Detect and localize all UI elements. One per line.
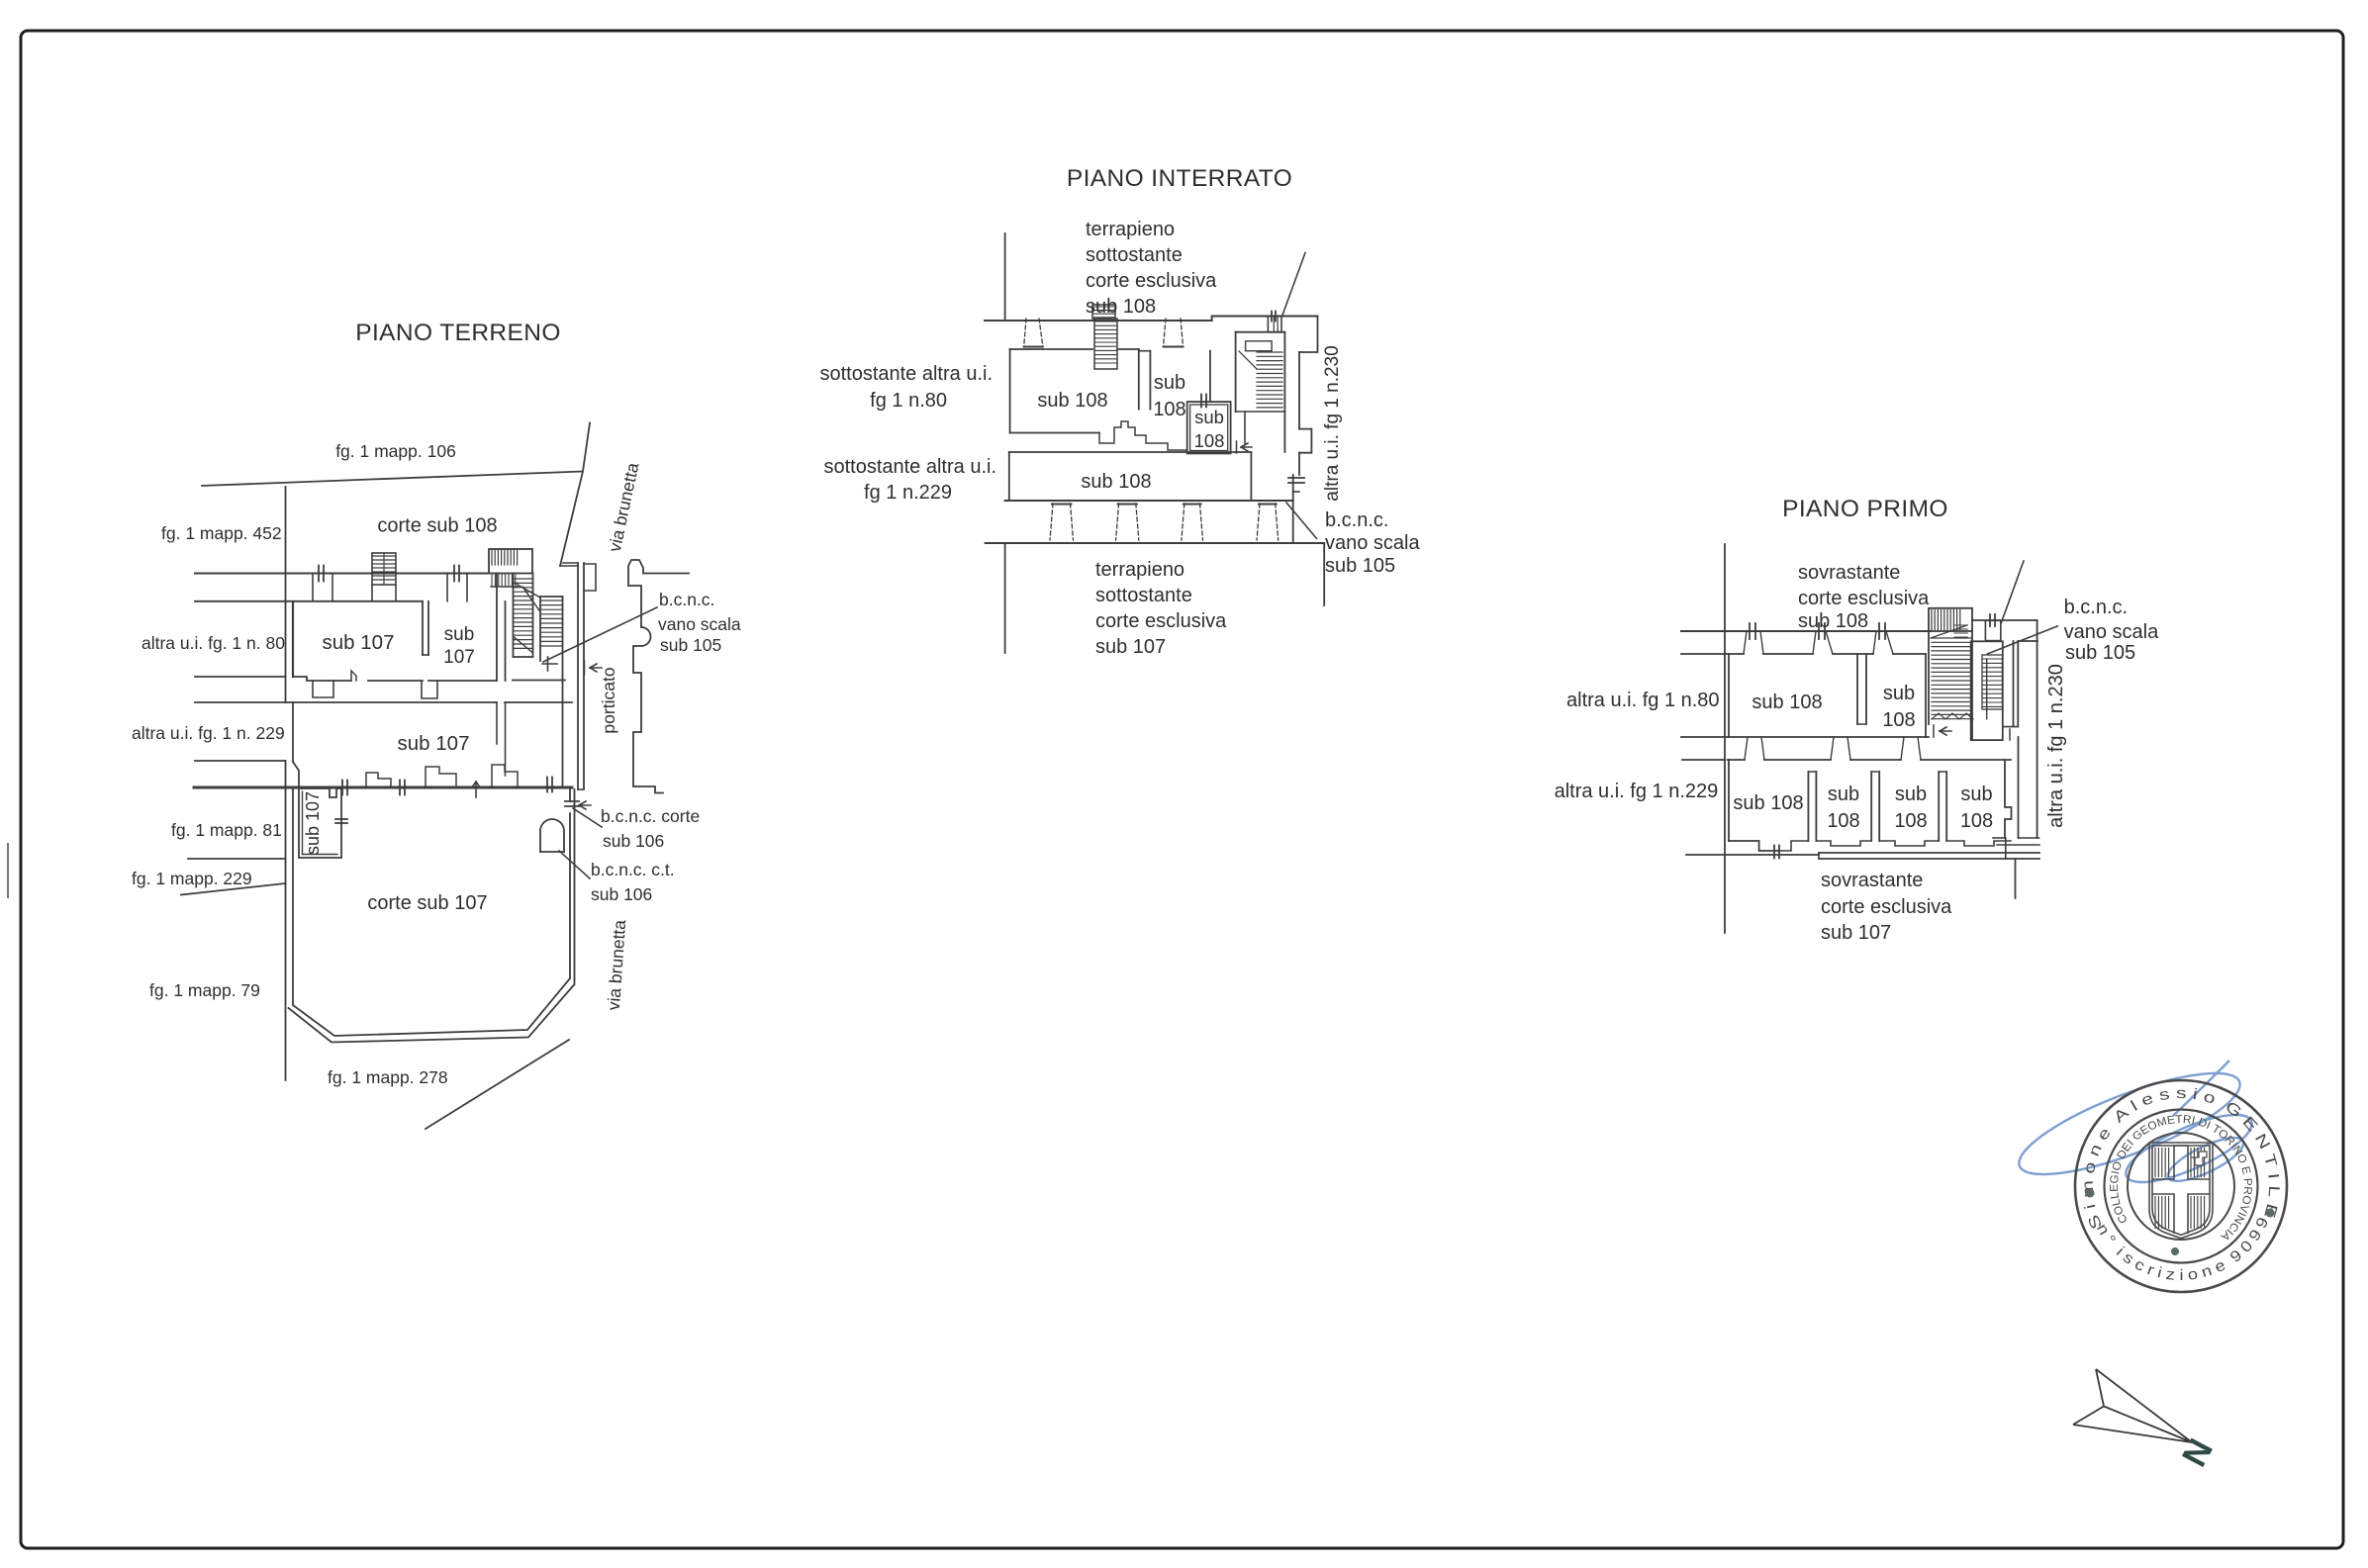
building SE wall continuation xyxy=(562,681,564,788)
door arrow plan2 corridor xyxy=(1241,443,1252,451)
svg-text:vano scala: vano scala xyxy=(658,614,741,634)
window tick xyxy=(1272,312,1276,322)
right lower stub plan3 xyxy=(2015,859,2017,898)
svg-text:terrapieno: terrapieno xyxy=(1095,559,1184,581)
tick south facade 2 xyxy=(400,781,405,795)
svg-text:sub: sub xyxy=(1828,784,1859,805)
window bay dashed plan2 top xyxy=(1024,319,1026,346)
stamp: signature blue swirls xyxy=(2009,1054,2259,1195)
svg-text:108: 108 xyxy=(1827,810,1859,832)
window tick xyxy=(1990,614,1995,626)
svg-text:sub 107: sub 107 xyxy=(1095,636,1166,658)
svg-text:sub 105: sub 105 xyxy=(2065,642,2135,664)
stair chimney hatch plan2 xyxy=(1092,305,1115,319)
svg-text:altra u.i. fg 1 n.230: altra u.i. fg 1 n.230 xyxy=(2045,664,2067,828)
stair diagonals xyxy=(515,637,533,653)
porticato colonnade outline xyxy=(628,560,689,627)
svg-text:sottostante altra u.i.: sottostante altra u.i. xyxy=(823,456,996,478)
svg-text:sub 108: sub 108 xyxy=(1086,296,1156,318)
context vertical lower-right plan2 xyxy=(1323,543,1325,605)
door bump plan3 xyxy=(1985,620,2000,640)
bay dashed side xyxy=(1257,504,1260,540)
svg-text:b.c.n.c.: b.c.n.c. xyxy=(659,590,714,609)
middle jog structure xyxy=(1099,421,1186,450)
svg-text:108: 108 xyxy=(1882,709,1915,731)
left edge scan mark xyxy=(7,843,9,898)
svg-text:sub 106: sub 106 xyxy=(591,884,652,904)
upper rooms plan3 xyxy=(1728,654,1730,737)
svg-text:fg. 1 mapp. 229: fg. 1 mapp. 229 xyxy=(132,869,252,888)
south facade y796 (thick) xyxy=(194,786,572,789)
svg-text:porticato: porticato xyxy=(599,667,618,733)
stamp shield xyxy=(2149,1143,2213,1239)
svg-text:sub 105: sub 105 xyxy=(660,635,721,655)
svg-text:108: 108 xyxy=(1194,430,1225,451)
svg-text:corte esclusiva: corte esclusiva xyxy=(1821,896,1952,918)
boundary fg.1 mapp.106 xyxy=(202,472,582,487)
vano scala box plan3 xyxy=(1971,641,2003,740)
top right line plan3 xyxy=(1972,619,2037,621)
svg-text:108: 108 xyxy=(1960,810,1993,832)
svg-text:PIANO TERRENO: PIANO TERRENO xyxy=(355,320,561,346)
door nib on south wall xyxy=(351,671,356,681)
via brunetta road diagonal lower xyxy=(426,1040,569,1129)
svg-text:sub 107: sub 107 xyxy=(323,631,395,654)
stair block outline xyxy=(513,574,515,658)
svg-text:fg 1 n.80: fg 1 n.80 xyxy=(870,390,947,412)
svg-text:altra u.i. fg. 1 n. 229: altra u.i. fg. 1 n. 229 xyxy=(132,723,285,743)
svg-text:corte sub 107: corte sub 107 xyxy=(367,892,487,914)
leader top-right plan2 xyxy=(1282,253,1305,316)
porch hatch below facade xyxy=(492,575,516,587)
shield step ornament top-right xyxy=(2191,1152,2207,1165)
tick south facade 1 xyxy=(342,781,347,795)
right corridor wall plan3 xyxy=(2018,737,2020,838)
svg-text:fg 1 n.229: fg 1 n.229 xyxy=(864,482,952,504)
stamp ring dots xyxy=(2086,1189,2095,1198)
stair block plan3 xyxy=(1928,631,1930,724)
bottom room sub108 plan2 xyxy=(1008,452,1010,501)
east annex double wall xyxy=(577,563,579,789)
bay dashed side xyxy=(1050,504,1053,540)
svg-text:fg. 1 mapp. 106: fg. 1 mapp. 106 xyxy=(335,441,456,461)
tick south facade 3 xyxy=(547,778,552,792)
door tick xyxy=(565,801,579,806)
svg-text:108: 108 xyxy=(1153,399,1185,420)
svg-text:PIANO PRIMO: PIANO PRIMO xyxy=(1782,496,1948,522)
svg-text:sub: sub xyxy=(1883,683,1915,704)
svg-text:sub: sub xyxy=(444,624,475,645)
stair top box plan3 xyxy=(1929,608,1972,631)
small sub108 box double wall xyxy=(1187,402,1231,453)
c.t. box xyxy=(540,819,564,852)
svg-text:vano scala: vano scala xyxy=(2064,621,2159,643)
svg-text:fg. 1 mapp. 452: fg. 1 mapp. 452 xyxy=(161,523,282,543)
stair block plan2 xyxy=(1235,332,1237,412)
svg-text:altra u.i. fg 1 n.80: altra u.i. fg 1 n.80 xyxy=(1566,690,1720,711)
band bay side plan3 xyxy=(1918,737,1921,760)
svg-text:fg. 1 mapp. 278: fg. 1 mapp. 278 xyxy=(328,1067,448,1087)
context vertical lower-left plan2 xyxy=(1004,543,1006,653)
svg-text:sovrastante: sovrastante xyxy=(1798,562,1900,584)
room divider plan3 xyxy=(1938,772,1940,841)
svg-text:b.c.n.c. c.t.: b.c.n.c. c.t. xyxy=(591,860,675,879)
door arrow porticato upper xyxy=(590,664,602,672)
south wall of upper block y688 xyxy=(293,677,351,681)
svg-text:sub 108: sub 108 xyxy=(1733,792,1803,814)
stamp inner circle xyxy=(2128,1133,2234,1240)
svg-text:b.c.n.c.: b.c.n.c. xyxy=(1325,509,1388,531)
svg-text:PIANO INTERRATO: PIANO INTERRATO xyxy=(1067,165,1292,192)
door tick right plan2 xyxy=(1288,478,1304,483)
band bay side plan3 xyxy=(1847,737,1850,760)
left boundary vertical lower xyxy=(285,761,287,1080)
svg-text:sub 106: sub 106 xyxy=(603,831,664,851)
svg-text:sottostante: sottostante xyxy=(1086,244,1183,266)
shield hatch TR xyxy=(2191,1148,2205,1177)
zigzag bottom of stair plan3 xyxy=(1932,713,1973,719)
bottom facade plan2 xyxy=(986,542,1324,544)
corte sub107 inner boundary xyxy=(293,787,570,1036)
svg-text:corte sub 108: corte sub 108 xyxy=(377,515,497,537)
tick plan3 facade 3 xyxy=(1879,623,1885,639)
chimney hatch lines xyxy=(373,556,395,580)
room top line plan3 xyxy=(1681,653,1744,655)
north facade plan2 xyxy=(985,317,1318,322)
svg-text:corte esclusiva: corte esclusiva xyxy=(1798,588,1930,609)
svg-text:sottostante: sottostante xyxy=(1095,585,1192,606)
svg-text:sub 108: sub 108 xyxy=(1037,390,1107,412)
svg-text:sottostante altra u.i.: sottostante altra u.i. xyxy=(819,363,993,385)
svg-text:b.c.n.c.: b.c.n.c. xyxy=(2064,597,2128,618)
svg-text:altra u.i. fg 1 n.230: altra u.i. fg 1 n.230 xyxy=(1322,345,1343,501)
svg-text:fg. 1 mapp. 79: fg. 1 mapp. 79 xyxy=(149,980,260,1000)
leader b.c.n.c. plan3 xyxy=(2001,561,2024,622)
room divider plan3 xyxy=(1870,772,1872,841)
svg-text:sub 108: sub 108 xyxy=(1081,471,1151,493)
slanted separator fg.1 mapp.229 xyxy=(181,883,286,895)
chimney stair hatch on facade xyxy=(372,553,396,585)
divider between sub107 rooms xyxy=(422,601,424,655)
room2 right wall (double) xyxy=(496,574,498,682)
stamp middle circle xyxy=(2105,1110,2258,1263)
right walls plan3 xyxy=(2013,641,2015,727)
band bay side plan3 xyxy=(1745,737,1748,760)
bay side plan3 xyxy=(1760,631,1763,654)
stair top box xyxy=(489,549,532,574)
mid band plan3 xyxy=(1681,736,1729,738)
corridor & right walls plan2 xyxy=(1298,352,1300,429)
door arrow xyxy=(579,801,591,809)
window tick north facade right xyxy=(454,566,459,582)
stair top box vertical hatch xyxy=(492,550,518,565)
svg-text:sovrastante: sovrastante xyxy=(1821,870,1923,891)
bay dashed side xyxy=(1182,504,1184,540)
door arrow plan3 xyxy=(1940,727,1951,735)
bay side plan3 xyxy=(1826,631,1833,654)
leader vano scala plan3 xyxy=(1987,626,2057,654)
separator y769 xyxy=(195,760,286,762)
band bay side plan3 xyxy=(1831,737,1834,760)
left boundary vertical upper xyxy=(285,487,287,702)
separator y868 xyxy=(188,858,286,860)
svg-text:sub: sub xyxy=(1194,407,1224,427)
bay side plan3 xyxy=(1886,631,1893,654)
svg-text:sub: sub xyxy=(1154,372,1185,394)
bay side plan3 xyxy=(1873,631,1876,654)
room divider plan3 xyxy=(1807,772,1809,841)
svg-text:sub 105: sub 105 xyxy=(1325,555,1395,577)
south wall pilaster bumps xyxy=(366,773,391,787)
svg-text:sub 107: sub 107 xyxy=(303,791,323,855)
room sub107 upper-left walls xyxy=(292,601,294,677)
bay side plan3 xyxy=(1813,631,1816,654)
corner connector xyxy=(560,565,578,567)
svg-text:corte esclusiva: corte esclusiva xyxy=(1086,270,1217,292)
stair treads right run xyxy=(541,600,562,646)
tick plan3 facade 2 xyxy=(1819,623,1825,639)
top-right canopy box xyxy=(1268,317,1281,332)
south bays of upper block xyxy=(313,681,333,697)
svg-text:fg. 1 mapp. 81: fg. 1 mapp. 81 xyxy=(171,820,282,840)
lower rooms top y768 xyxy=(1682,759,1725,761)
via brunetta road line upper xyxy=(560,423,590,567)
separator y684 xyxy=(195,676,286,678)
inner stair plan3 xyxy=(1982,655,2003,709)
svg-text:corte esclusiva: corte esclusiva xyxy=(1095,610,1227,632)
context vertical upper-left xyxy=(1004,233,1006,319)
bay side plan3 xyxy=(1744,631,1747,654)
shield hatch TL xyxy=(2155,1148,2169,1177)
band bay side plan3 xyxy=(1901,737,1904,760)
svg-text:b.c.n.c. corte: b.c.n.c. corte xyxy=(601,806,700,826)
svg-text:terrapieno: terrapieno xyxy=(1086,219,1175,240)
svg-text:sub 107: sub 107 xyxy=(1821,922,1891,944)
lower rooms bottom walls xyxy=(1777,841,1808,851)
leader b.c.n.c. corte xyxy=(573,808,602,827)
svg-text:sub: sub xyxy=(1895,784,1927,805)
svg-text:sub 107: sub 107 xyxy=(398,732,470,755)
room sub108 upper walls xyxy=(1009,349,1011,433)
corte sub107 outer boundary xyxy=(289,789,575,1043)
svg-text:altra u.i. fg 1 n.229: altra u.i. fg 1 n.229 xyxy=(1555,781,1719,802)
bottom band double line plan3 xyxy=(1686,854,1819,856)
tick lower-left plan3 xyxy=(1774,846,1779,859)
north facade y579 xyxy=(195,573,489,575)
north arrow xyxy=(2073,1369,2192,1442)
separator y710 xyxy=(195,701,293,703)
window tick north facade left xyxy=(319,566,324,582)
leader b.c.n.c. c.t. xyxy=(559,851,590,878)
leader b.c.n.c. vano scala xyxy=(543,607,657,662)
stamp outer circle xyxy=(2075,1080,2287,1292)
tick on sub107 box xyxy=(335,819,347,823)
right bump plan2 xyxy=(1299,429,1311,453)
svg-text:108: 108 xyxy=(1894,810,1927,832)
up arrow on south facade xyxy=(472,782,480,797)
tick plan3 facade 1 xyxy=(1750,623,1755,639)
band bay side plan3 xyxy=(1761,737,1764,760)
svg-text:sub 108: sub 108 xyxy=(1752,692,1822,713)
small box sub 107 (vertical) xyxy=(299,788,341,858)
svg-text:sub 108: sub 108 xyxy=(1798,610,1868,632)
svg-text:sub: sub xyxy=(1960,784,1992,805)
tick on small sub108 box xyxy=(1201,395,1206,408)
right room wall + bump xyxy=(2005,760,2012,838)
lower rooms plan3 xyxy=(1728,760,1730,841)
separator / room top line y608 xyxy=(195,600,423,602)
svg-text:altra u.i. fg. 1 n. 80: altra u.i. fg. 1 n. 80 xyxy=(142,633,285,653)
landing tick below stair xyxy=(542,663,557,665)
shield hatch BL xyxy=(2155,1196,2169,1229)
svg-text:vano scala: vano scala xyxy=(1325,532,1420,554)
room top line plan2 xyxy=(1010,348,1092,350)
svg-text:107: 107 xyxy=(443,647,475,668)
leader b.c.n.c. plan2 xyxy=(1286,503,1316,538)
north facade plan3 xyxy=(1681,630,1931,632)
shield hatch BR xyxy=(2191,1196,2205,1229)
lower block sub107 walls xyxy=(293,701,497,703)
bay dashed side xyxy=(1116,504,1119,540)
stair treads left run xyxy=(515,579,533,648)
context vertical left plan3 xyxy=(1724,544,1726,933)
